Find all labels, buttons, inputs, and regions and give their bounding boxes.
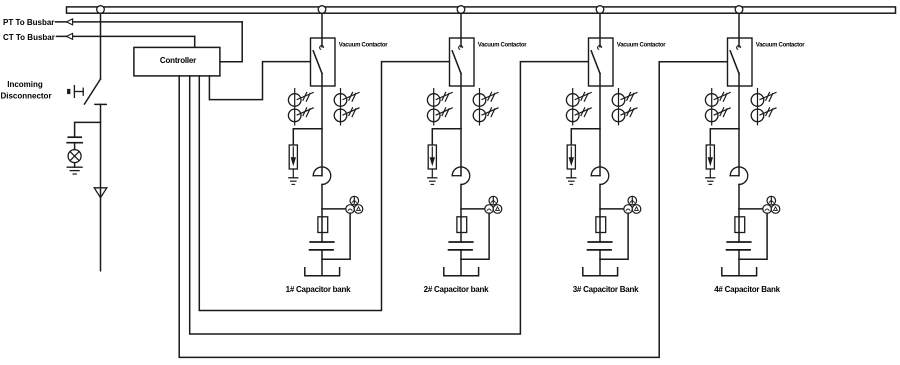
wire busbar to vacuum contactor K1 — [321, 13, 323, 38]
wire capacitor to rack 3 — [599, 250, 601, 276]
wire CT line with arrowhead — [57, 33, 195, 39]
capacitor bank C1 plates — [310, 242, 334, 250]
wire PT riser to controller — [220, 22, 242, 62]
surge arrester F2 — [428, 145, 436, 169]
wire contactor K1 to reactor — [321, 74, 323, 176]
wire branch 3 to surge arrester — [571, 129, 600, 145]
vacuum contactor K1 fixed contact — [320, 38, 324, 49]
discharge coil group T3 — [624, 196, 641, 213]
label 3# Capacitor Bank — [573, 285, 639, 294]
wire CT drop to controller top — [194, 36, 196, 47]
current transformer CT1a (left pair) — [288, 89, 313, 125]
wire controller to contactor K2 — [199, 62, 449, 311]
node incoming feeder tap on busbar — [97, 6, 105, 14]
wire discharge coils to capacitor 1 — [322, 213, 350, 259]
arrow-head on incoming feeder — [94, 188, 107, 198]
wire controller to contactor K1 — [209, 62, 310, 100]
fuse FU1 — [318, 217, 328, 233]
fuse FU3 — [596, 217, 606, 233]
vacuum contactor K2 fixed contact — [459, 38, 463, 49]
vacuum contactor K4 fixed contact — [737, 38, 741, 49]
wire capacitor to lamp — [74, 143, 76, 150]
vacuum contactor K4 box — [728, 38, 753, 86]
label 4# Capacitor Bank — [714, 285, 780, 294]
svg-text:3# Capacitor Bank: 3# Capacitor Bank — [573, 285, 639, 294]
vacuum contactor K1 blade — [313, 51, 322, 74]
svg-text:Vacuum Contactor: Vacuum Contactor — [339, 43, 388, 49]
wire contactor K2 to reactor — [460, 74, 462, 176]
label Controller — [160, 56, 196, 65]
discharge coil group T4 — [763, 196, 780, 213]
capacitor bank C4 plates — [727, 242, 751, 250]
current transformer CT2b (right pair) — [473, 89, 498, 125]
svg-text:Vacuum Contactor: Vacuum Contactor — [617, 43, 666, 49]
wire controller to contactor K3 — [190, 62, 589, 334]
wire contactor K3 to reactor — [599, 74, 601, 176]
vacuum contactor K3 fixed contact — [598, 38, 602, 49]
vacuum contactor K2 box — [450, 38, 475, 86]
vacuum contactor K3 box — [589, 38, 614, 86]
label 2# Capacitor bank — [424, 285, 489, 294]
svg-text:Disconnector: Disconnector — [0, 92, 51, 101]
wire branch 1 to surge arrester — [293, 129, 322, 145]
vacuum contactor K1 box — [311, 38, 336, 86]
wire busbar to vacuum contactor K4 — [738, 13, 740, 38]
svg-text:2# Capacitor bank: 2# Capacitor bank — [424, 285, 489, 294]
incoming disconnector blade — [85, 79, 101, 104]
label Incoming Disconnector — [0, 80, 51, 101]
incoming disconnector bottom contact — [95, 103, 106, 105]
wire controller to contactor K4 — [179, 62, 727, 358]
series reactor L2 — [452, 167, 470, 185]
wire lamp to ground — [74, 163, 76, 168]
wire busbar to vacuum contactor K2 — [460, 13, 462, 38]
ground of arrester F4 — [706, 169, 715, 184]
current transformer CT3b (right pair) — [612, 89, 637, 125]
controller U1 box — [134, 47, 220, 76]
vacuum contactor K4 blade — [730, 51, 739, 74]
wire tap to discharge coils 2 — [461, 208, 485, 210]
svg-text:Vacuum Contactor: Vacuum Contactor — [478, 43, 527, 49]
label Vacuum Contactor 3 — [617, 43, 666, 49]
wire capacitor to rack 4 — [738, 250, 740, 276]
capacitor rack symbol 1 — [305, 268, 340, 276]
current transformer CT1b (right pair) — [334, 89, 359, 125]
fuse FU2 — [457, 217, 467, 233]
ground of arrester F2 — [428, 169, 437, 184]
series reactor L3 — [591, 167, 609, 185]
current transformer CT2a (left pair) — [427, 89, 452, 125]
ground of arrester F3 — [567, 169, 576, 184]
vacuum contactor K3 blade — [591, 51, 600, 74]
label Vacuum Contactor 1 — [339, 43, 388, 49]
surge arrester F1 — [289, 145, 297, 169]
wire contactor K4 to reactor — [738, 74, 740, 176]
capacitor rack symbol 2 — [444, 268, 479, 276]
wire discharge coils to capacitor 4 — [739, 213, 767, 259]
wire busbar to vacuum contactor K3 — [599, 13, 601, 38]
series reactor L4 — [730, 167, 748, 185]
wire discharge coils to capacitor 3 — [600, 213, 628, 259]
series reactor L1 — [313, 167, 331, 185]
node branch 2 tap on busbar — [457, 6, 465, 14]
node branch 4 tap on busbar — [735, 6, 743, 14]
wire disconnector to feeder — [100, 104, 102, 270]
label PT To Busbar — [3, 18, 54, 27]
wire capacitor to rack 1 — [321, 250, 323, 276]
discharge coil group T1 — [346, 196, 363, 213]
svg-text:4# Capacitor Bank: 4# Capacitor Bank — [714, 285, 780, 294]
wire tap to discharge coils 3 — [600, 208, 624, 210]
svg-text:Controller: Controller — [160, 56, 196, 65]
node branch 1 tap on busbar — [318, 6, 326, 14]
capacitor rack symbol 4 — [722, 268, 757, 276]
vacuum contactor K2 blade — [452, 51, 461, 74]
wire tap to discharge coils 1 — [322, 208, 346, 210]
capacitor C-lamp plates — [67, 137, 82, 143]
svg-text:1# Capacitor bank: 1# Capacitor bank — [286, 285, 351, 294]
capacitor rack symbol 3 — [583, 268, 618, 276]
label CT To Busbar — [3, 33, 55, 42]
surge arrester F3 — [567, 145, 575, 169]
wire busbar to incoming disconnector — [100, 13, 102, 79]
wire reactor to fuse branch 1 — [321, 184, 323, 242]
node branch 3 tap on busbar — [596, 6, 604, 14]
ground of arrester F1 — [289, 169, 298, 184]
svg-text:PT To Busbar: PT To Busbar — [3, 18, 54, 27]
wire PT line with arrowhead — [56, 19, 243, 25]
label 1# Capacitor bank — [286, 285, 351, 294]
fuse FU4 — [735, 217, 745, 233]
svg-text:Vacuum Contactor: Vacuum Contactor — [756, 43, 805, 49]
wire tap to discharge lamp branch — [75, 122, 101, 137]
label Vacuum Contactor 2 — [478, 43, 527, 49]
capacitor bank C3 plates — [588, 242, 612, 250]
wire tap to discharge coils 4 — [739, 208, 763, 210]
indicator lamp — [68, 150, 81, 163]
wire branch 4 to surge arrester — [710, 129, 739, 145]
current transformer CT3a (left pair) — [566, 89, 591, 125]
wire capacitor to rack 2 — [460, 250, 462, 276]
discharge coil group T2 — [485, 196, 502, 213]
current transformer CT4b (right pair) — [751, 89, 776, 125]
wire branch 2 to surge arrester — [432, 129, 461, 145]
current transformer CT4a (left pair) — [705, 89, 730, 125]
svg-text:Incoming: Incoming — [7, 80, 43, 89]
surge arrester F4 — [706, 145, 714, 169]
ground of lamp branch — [67, 167, 82, 174]
busbar — [67, 7, 896, 13]
label Vacuum Contactor 4 — [756, 43, 805, 49]
capacitor bank C2 plates — [449, 242, 473, 250]
incoming disconnector fixed contact left — [68, 86, 84, 98]
svg-text:CT To Busbar: CT To Busbar — [3, 33, 55, 42]
wire discharge coils to capacitor 2 — [461, 213, 489, 259]
wire reactor to fuse branch 2 — [460, 184, 462, 242]
wire reactor to fuse branch 3 — [599, 184, 601, 242]
wire reactor to fuse branch 4 — [738, 184, 740, 242]
